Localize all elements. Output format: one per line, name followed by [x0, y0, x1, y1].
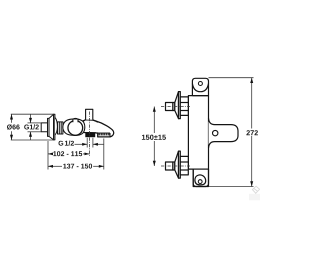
escutcheon neck (left view) — [48, 118, 50, 136]
O66 arrow up — [10, 114, 13, 119]
central boss — [209, 118, 239, 148]
G1/2 arrow up (to pipe bottom) — [29, 132, 32, 137]
ext line bottom (O66) — [11, 139, 54, 141]
272 arrow up — [250, 78, 253, 83]
top escutcheon cone — [175, 92, 179, 119]
G 1/2 arrow right — [82, 143, 87, 146]
bottom tab inner contour — [195, 175, 206, 185]
left extension line below escutcheon — [47, 141, 49, 170]
centerline top inlet — [161, 107, 190, 167]
arrowheads right view — [153, 78, 253, 187]
G1/2 pipe ext lines — [28, 122, 42, 124]
137-150 arrow right — [99, 165, 104, 168]
ext line top (O66) — [11, 113, 54, 115]
150±15 arrow up — [153, 107, 156, 112]
aerator hatching — [98, 134, 109, 136]
mixer bar body — [188, 96, 208, 187]
wall pipe stub (left view) — [41, 123, 47, 132]
272 dim line segments — [251, 78, 253, 129]
bottom tab hole — [198, 180, 202, 184]
central hole — [213, 130, 218, 135]
label 150±15 — [142, 135, 166, 140]
150±15 dim line segments — [153, 107, 155, 134]
centerline through diverter/outlet — [88, 112, 90, 158]
272 ext line bottom — [209, 186, 254, 188]
272 ext line top — [209, 77, 254, 79]
top tab inner arc — [192, 84, 208, 92]
spout / aerator junction line — [96, 132, 110, 134]
102-115 arrow right — [85, 153, 90, 156]
label G 1/2 lower — [59, 141, 75, 146]
137-150 arrow left — [48, 165, 53, 168]
bottom inlet pipe — [166, 162, 173, 170]
handle top bump — [73, 117, 77, 120]
escutcheon cone (left view) — [49, 114, 54, 140]
102-115 dim line segments — [48, 153, 52, 155]
top tab / bar junction line — [192, 95, 208, 97]
G 1/2 arrow left — [93, 143, 98, 146]
top inlet pipe — [166, 103, 173, 111]
watermark glyph bottom right — [252, 186, 259, 196]
label O66 — [7, 124, 20, 129]
handle knob face — [68, 121, 83, 136]
O66 dim line segments — [11, 114, 13, 123]
G 1/2 leader lines — [75, 143, 88, 145]
arrowheads left view — [10, 114, 104, 168]
connector nut — [58, 122, 63, 134]
handle knob top notch — [73, 119, 78, 122]
bottom mounting tab — [193, 169, 208, 186]
G1/2 arrow down (to pipe top) — [29, 118, 32, 123]
centerline bottom inlet — [161, 165, 190, 167]
spout end ext line — [103, 139, 105, 170]
G1/2 dim arrows (outside) — [30, 114, 32, 123]
spout body — [81, 120, 114, 137]
aerator right edge — [109, 133, 111, 137]
label 102 - 115 — [53, 151, 82, 156]
top nut — [180, 97, 188, 116]
272 arrow down — [250, 181, 253, 186]
bottom escutcheon neck — [173, 162, 175, 170]
top mounting tab — [192, 78, 208, 95]
top escutcheon rim — [179, 92, 181, 119]
outlet ext lines — [86, 138, 88, 148]
shower outlet (black) — [85, 133, 95, 138]
label G1/2 upper — [24, 124, 39, 129]
label 137 - 150 — [63, 164, 92, 169]
top escutcheon neck — [173, 103, 175, 111]
102-115 arrow left — [48, 153, 53, 156]
bottom nut — [180, 156, 188, 175]
bottom tab / bar junction line — [193, 168, 208, 170]
150±15 arrow down — [153, 161, 156, 166]
escutcheon rim (left view) — [54, 114, 55, 140]
top tab hole — [198, 82, 202, 86]
handle ring — [63, 119, 85, 135]
escutcheon dome cap — [55, 118, 57, 136]
bottom escutcheon rim — [179, 151, 181, 178]
O66 arrow down — [10, 135, 13, 140]
diverter shoulders — [81, 120, 98, 124]
137-150 dim line segments — [48, 165, 62, 167]
bottom escutcheon cone — [175, 151, 179, 178]
diverter knob — [86, 109, 93, 120]
label 272 — [246, 130, 258, 135]
